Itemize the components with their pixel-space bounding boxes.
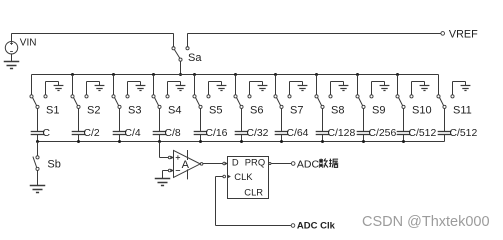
svg-text:S7: S7 <box>290 105 303 117</box>
svg-text:C/64: C/64 <box>287 128 309 139</box>
svg-text:C/128: C/128 <box>328 128 356 139</box>
svg-text:C/512: C/512 <box>409 128 437 139</box>
svg-text:C/8: C/8 <box>165 128 181 139</box>
svg-text:C: C <box>43 128 51 139</box>
svg-text:ADC Clk: ADC Clk <box>297 221 336 232</box>
svg-text:A: A <box>182 159 190 171</box>
svg-text:S2: S2 <box>87 105 100 117</box>
svg-text:S10: S10 <box>412 105 432 117</box>
svg-text:C/2: C/2 <box>84 128 100 139</box>
svg-text:C/256: C/256 <box>369 128 397 139</box>
svg-text:Sa: Sa <box>188 52 202 64</box>
svg-text:S9: S9 <box>372 105 385 117</box>
svg-text:C/4: C/4 <box>125 128 141 139</box>
svg-text:CLK: CLK <box>234 171 253 182</box>
svg-text:VREF: VREF <box>449 29 478 41</box>
svg-text:Sb: Sb <box>47 158 60 170</box>
svg-text:C/512: C/512 <box>450 128 478 139</box>
svg-text:S5: S5 <box>209 105 222 117</box>
svg-text:S4: S4 <box>168 105 181 117</box>
svg-text:S11: S11 <box>453 105 472 117</box>
svg-text:CLR: CLR <box>244 186 263 197</box>
svg-text:S8: S8 <box>331 105 344 117</box>
svg-text:S6: S6 <box>250 105 263 117</box>
svg-text:D: D <box>232 157 239 168</box>
svg-text:CSDN @Thxtek000: CSDN @Thxtek000 <box>362 214 490 230</box>
svg-text:C/32: C/32 <box>247 128 269 139</box>
svg-text:S1: S1 <box>46 105 59 117</box>
svg-text:ADC: ADC <box>297 158 320 170</box>
svg-text:C/16: C/16 <box>206 128 228 139</box>
svg-text:VIN: VIN <box>20 37 37 48</box>
svg-text:PRQ: PRQ <box>245 157 265 168</box>
svg-text:S3: S3 <box>128 105 141 117</box>
